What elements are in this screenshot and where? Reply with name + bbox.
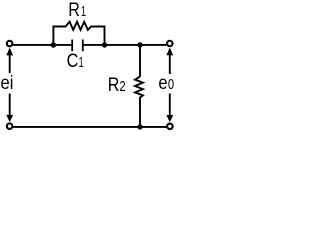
svg-text:R: R (68, 0, 80, 20)
svg-text:1: 1 (79, 54, 84, 71)
svg-text:ei: ei (1, 72, 14, 93)
svg-text:2: 2 (119, 78, 125, 95)
svg-text:1: 1 (81, 2, 86, 19)
svg-text:e: e (158, 72, 167, 93)
svg-text:C: C (67, 50, 79, 72)
svg-text:R: R (108, 74, 120, 96)
svg-text:0: 0 (168, 76, 174, 93)
